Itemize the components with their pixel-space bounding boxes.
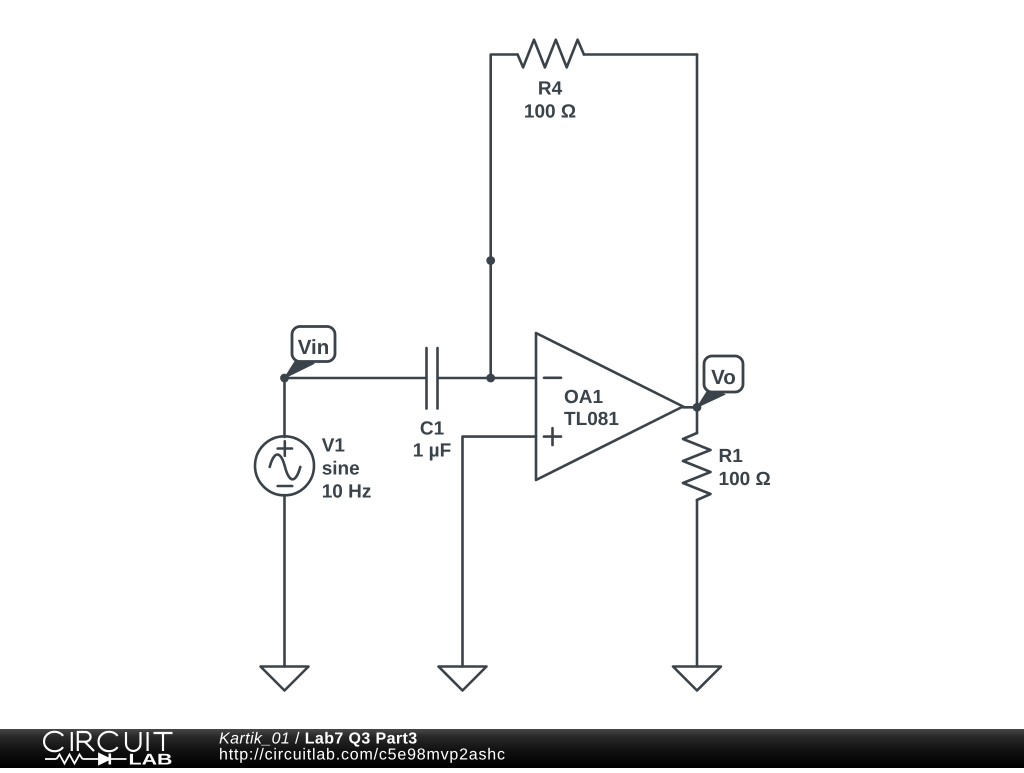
wire feedback vertical (inverting node up to R4 row) [491, 55, 518, 379]
label C1 value [413, 419, 451, 462]
svg-text:http://circuitlab.com/c5e98mvp: http://circuitlab.com/c5e98mvp2ashc [219, 747, 506, 764]
svg-text:Vo: Vo [711, 366, 736, 389]
wire non-inverting input to ground [463, 437, 537, 667]
net flag Vo [697, 356, 743, 407]
CircuitLab logo resistor-diode glyph and LAB [45, 751, 173, 768]
label R4 value [524, 79, 576, 123]
ground at non-inverting input [439, 667, 487, 691]
svg-text:R4: R4 [538, 79, 563, 100]
junction dot feedback wire joint [486, 256, 495, 265]
wire op-amp output to output node [683, 406, 697, 409]
svg-text:Vin: Vin [298, 336, 330, 359]
wire V1 bottom to ground [283, 495, 286, 667]
voltage source V1 [255, 436, 314, 495]
wire Vin node down to V1 top [283, 378, 286, 437]
net flag Vin [285, 327, 336, 379]
resistor R1 [683, 433, 711, 500]
svg-text:100 Ω: 100 Ω [524, 102, 576, 123]
ground at V1 [261, 667, 309, 691]
capacitor C1 [427, 348, 438, 409]
wire output node to R1 top [696, 407, 699, 433]
svg-text:10 Hz: 10 Hz [322, 481, 372, 502]
svg-text:TL081: TL081 [564, 409, 619, 430]
ground at output [673, 667, 721, 691]
junction dot Vin node [280, 374, 289, 383]
svg-text:OA1: OA1 [564, 387, 604, 408]
svg-text:V1: V1 [322, 436, 346, 457]
junction dot inverting node [486, 374, 495, 383]
svg-text:C1: C1 [420, 419, 445, 440]
label OA1 value [564, 387, 619, 430]
svg-text:Kartik_01 / Lab7 Q3 Part3: Kartik_01 / Lab7 Q3 Part3 [219, 731, 418, 748]
label V1 value [322, 436, 372, 503]
footer bar [0, 729, 1024, 768]
junction dot output node [693, 403, 702, 412]
CircuitLab logo wordmark CIRCUIT [44, 732, 172, 751]
svg-text:1 µF: 1 µF [413, 440, 451, 461]
svg-text:R1: R1 [719, 446, 744, 467]
wire R1 bottom to ground [696, 500, 699, 667]
wire R4 right to top-right corner [584, 53, 697, 56]
resistor R4 [518, 40, 584, 68]
wire C1 right plate to op-amp inverting input [438, 377, 536, 380]
svg-text:100 Ω: 100 Ω [719, 469, 771, 490]
wire Vin node to C1 left plate [285, 377, 427, 380]
wire right vertical (top corner down to output node) [696, 55, 699, 408]
svg-text:LAB: LAB [129, 751, 173, 768]
svg-text:sine: sine [322, 458, 360, 479]
label R1 value [719, 446, 771, 490]
op-amp OA1 [536, 333, 683, 480]
